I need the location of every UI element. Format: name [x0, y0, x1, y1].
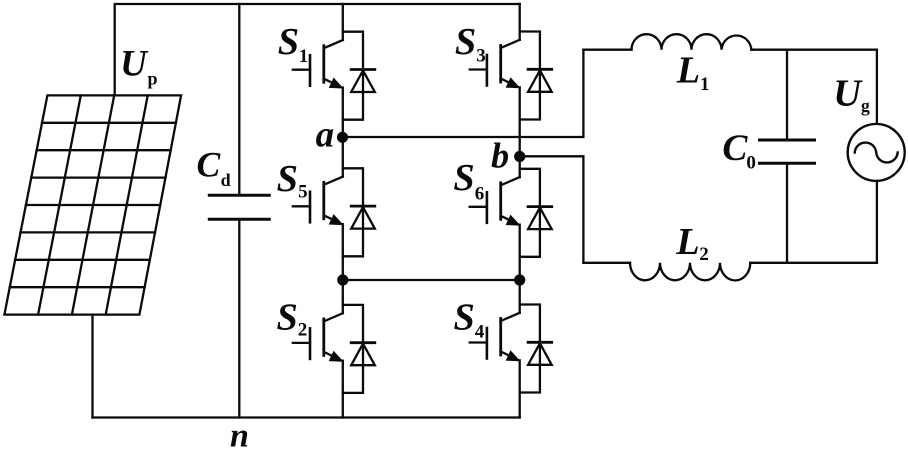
- svg-text:g: g: [861, 96, 870, 116]
- transistor S3 (IGBT): [470, 40, 520, 88]
- wire: L2 to Ug: [750, 262, 877, 264]
- svg-text:p: p: [148, 69, 158, 89]
- wire: node a to L1 riser: [343, 50, 584, 137]
- capacitor C0 leads: [786, 50, 788, 263]
- svg-text:4: 4: [475, 322, 485, 343]
- svg-text:C: C: [722, 128, 748, 169]
- svg-text:1: 1: [299, 46, 309, 67]
- svg-text:S: S: [277, 296, 298, 338]
- svg-text:n: n: [230, 418, 249, 451]
- svg-text:5: 5: [298, 182, 308, 203]
- svg-text:S: S: [454, 296, 475, 338]
- inductor L1: [632, 34, 752, 50]
- transistor S1 (IGBT): [293, 40, 343, 88]
- wire: top DC rail: [115, 4, 520, 95]
- svg-text:L: L: [675, 221, 699, 263]
- transistor S4 (IGBT): [470, 313, 520, 361]
- wire: midpoint connector: [343, 279, 520, 281]
- transistor S2 (IGBT): [293, 313, 343, 361]
- svg-text:U: U: [120, 44, 149, 85]
- wire: bottom DC rail (net n): [93, 416, 520, 418]
- diode D2 (anti-parallel): [343, 305, 375, 393]
- svg-text:U: U: [833, 73, 863, 115]
- svg-text:6: 6: [475, 183, 485, 204]
- svg-text:S: S: [277, 158, 298, 200]
- capacitor C0 plates: [760, 140, 815, 163]
- diode D6 (anti-parallel): [520, 169, 552, 257]
- transistor S6 (IGBT): [470, 177, 520, 225]
- svg-text:C: C: [197, 144, 221, 184]
- wire: L1 to Ug: [751, 49, 877, 51]
- wire: to L2: [583, 262, 630, 264]
- capacitor Cd plates: [209, 195, 269, 219]
- AC source Ug sine wave: [855, 143, 898, 163]
- svg-text:b: b: [491, 136, 509, 176]
- wire: right leg segments: [519, 4, 521, 40]
- right mid junction dot: [514, 274, 525, 285]
- svg-text:0: 0: [746, 152, 756, 173]
- left mid junction dot: [337, 274, 348, 285]
- svg-text:2: 2: [699, 244, 709, 265]
- node a junction dot: [337, 132, 348, 143]
- inductor L2: [630, 263, 750, 281]
- transistor S5 (IGBT): [293, 177, 343, 225]
- svg-text:L: L: [676, 50, 700, 92]
- svg-text:S: S: [278, 21, 299, 63]
- diode D1 (anti-parallel): [343, 32, 375, 120]
- svg-text:3: 3: [476, 46, 486, 67]
- svg-text:S: S: [453, 157, 474, 199]
- capacitor Cd leads: [238, 4, 240, 418]
- wire: node b to L2 riser: [520, 156, 584, 262]
- node b junction dot: [514, 151, 525, 162]
- svg-text:1: 1: [700, 74, 710, 95]
- PV array (Up source panel): [4, 95, 181, 314]
- diode D5 (anti-parallel): [343, 168, 375, 256]
- AC source Ug circle: [848, 124, 905, 181]
- diode D3 (anti-parallel): [520, 32, 552, 120]
- svg-text:a: a: [316, 114, 335, 155]
- wire: to L1: [583, 49, 631, 51]
- wire: PV negative lead: [91, 315, 93, 418]
- wire: left leg segments: [342, 4, 344, 40]
- svg-text:d: d: [221, 170, 231, 190]
- svg-text:S: S: [455, 21, 476, 63]
- diode D4 (anti-parallel): [520, 305, 552, 393]
- svg-text:2: 2: [298, 320, 308, 341]
- AC source Ug leads: [876, 50, 878, 263]
